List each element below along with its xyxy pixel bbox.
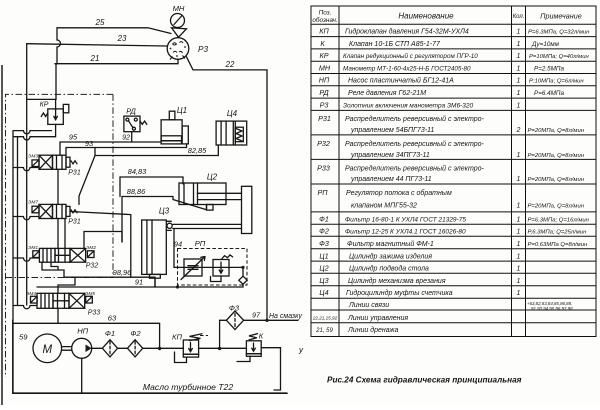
svg-text:КП: КП [172,332,182,341]
wire: Р31b side link down [70,212,131,278]
svg-text:Ц4: Ц4 [319,288,328,297]
wire: left vertical feed x26.7 [26,44,28,305]
wire: main line Ф2 to КП [143,347,184,350]
svg-text:МН: МН [173,4,185,13]
svg-text:Поз.: Поз. [319,10,332,17]
wire: riser to Ф3 [218,320,221,350]
svg-text:Реле давления Г62-21М: Реле давления Г62-21М [348,89,426,97]
wire: Р31a drain stub [13,168,39,171]
svg-text:Ц1: Ц1 [319,251,328,260]
svg-text:1: 1 [517,78,521,85]
svg-text:управлением 54БПГ73-11: управлением 54БПГ73-11 [350,127,434,134]
wire: left vertical feed x55 [55,28,61,100]
table column: names [343,28,485,335]
table column: notes [527,30,590,312]
wire 63 (pump pressure line) [13,314,160,349]
svg-text:1: 1 [517,203,521,210]
svg-text:Ц2: Ц2 [319,264,328,273]
wire: pump suction to tank [81,358,83,393]
svg-text:P=20МПа, Q=8л/мин: P=20МПа, Q=8л/мин [528,177,585,183]
svg-text:обознач.: обознач. [312,16,337,24]
wire 82,85 (to Ц4) [95,145,218,156]
wire: drain collector x13 [12,131,14,393]
distributor Р31 (second) with electromagnet ЭМ7 [28,200,81,226]
table header [312,10,581,24]
svg-text:На смазку: На смазку [269,313,302,320]
svg-text:Линии дренажа: Линии дренажа [347,326,398,334]
svg-text:Фильтр 12-25 К УХЛ4.1 ГОСТ 16: Фильтр 12-25 К УХЛ4.1 ГОСТ 16026-80 [345,229,466,236]
svg-text:Регулятор потока с обратным: Регулятор потока с обратным [346,189,452,197]
distributor Р33 with electromagnets ЭМ4 ЭМ5 [26,291,100,317]
electric motor М [33,334,62,363]
wire: Р33 bottom feed to 63 [57,308,59,323]
wire: Р32 drain stub [13,258,39,261]
svg-text:1: 1 [517,102,521,109]
wire: Р33 drain stub [13,306,37,309]
wire: Р33 top staircase [58,279,75,294]
svg-text:Гидроклапан давления Г54-32М-У: Гидроклапан давления Г54-32М-УХЛ4 [345,28,469,36]
svg-text:Клапан редукционный с регулято: Клапан редукционный с регулятором ПГР-10 [343,52,478,60]
svg-text:Р33: Р33 [317,164,330,173]
svg-text:1: 1 [517,278,521,285]
svg-text:93: 93 [85,139,94,148]
wire: link Р31a bottom to Р31b top [57,169,59,204]
svg-text:РД: РД [319,88,328,97]
svg-text:Ц4: Ц4 [227,109,238,118]
svg-text:1: 1 [517,253,521,260]
svg-text:Ду=10мм: Ду=10мм [531,41,560,48]
wire: second collector x17.5 [17,137,19,305]
wire: К outlet to tank [261,348,280,390]
svg-text:клапаном МПГ55-32: клапаном МПГ55-32 [351,203,417,210]
svg-text:P=10МПа; Q=40л/мин: P=10МПа; Q=40л/мин [529,54,589,60]
svg-text:Р31: Р31 [68,219,81,226]
svg-text:1: 1 [517,241,521,248]
wire: КП drain loop [175,352,187,363]
svg-text:Распределитель реверсивный с: Распределитель реверсивный с электро- [345,140,485,148]
page scan edge artifact [1,65,3,405]
svg-text:63: 63 [108,314,117,323]
cylinder Ц4 [216,109,247,145]
svg-text:P,6.3МПа; Q=25л/мин: P,6.3МПа; Q=25л/мин [528,230,588,236]
svg-text:1: 1 [517,41,521,48]
table frame [311,6,596,337]
table plate (shared rod end) [242,186,252,233]
cylinder Ц2 [179,173,242,211]
tank line [13,382,287,393]
table column: position designators [312,27,338,335]
valve КР (reducing valve) [40,102,69,125]
svg-text:Ф2: Ф2 [319,227,329,236]
svg-text:2: 2 [516,127,521,134]
wire 92 (РД to line) [122,132,132,142]
svg-text:Клапан 10-1Б СТП А85-1-77: Клапан 10-1Б СТП А85-1-77 [349,41,441,48]
svg-text:управлением 44 ПГ73-11: управлением 44 ПГ73-11 [350,176,432,183]
svg-text:Фильтр 16-80-1 К УХЛ4 ГОСТ 21: Фильтр 16-80-1 К УХЛ4 ГОСТ 21329-75 [345,217,466,224]
svg-text:ЭМ3: ЭМ3 [28,153,38,159]
svg-text:1: 1 [517,152,521,159]
svg-text:Линии управления: Линии управления [347,315,408,322]
svg-text:Цилиндр подвода стола: Цилиндр подвода стола [349,265,429,273]
svg-text:РД: РД [126,107,136,116]
svg-text:94: 94 [174,240,182,249]
svg-text:Насос пластинчатый БГ12-41А: Насос пластинчатый БГ12-41А [348,77,454,85]
wire 21 [55,54,178,64]
svg-text:22,21,15,92: 22,21,15,92 [312,315,338,320]
wire 97 (to lubrication) [244,311,303,322]
svg-text:Примечание: Примечание [540,12,581,21]
svg-text:1: 1 [517,65,521,72]
wire 23 [27,34,168,46]
filter Ф1 [102,329,117,357]
svg-text:Рис.24 Схема гидравлическая: Рис.24 Схема гидравлическая принципиальн… [327,376,522,385]
distributor Р31 (first) with electromagnet ЭМ3 [28,153,81,176]
svg-text:Ц2: Ц2 [207,173,218,182]
flow regulator РП (dashed box) [174,239,247,287]
svg-text:P=6.3МПа; Q=16л/мин: P=6.3МПа; Q=16л/мин [528,218,590,224]
svg-text:P=20МПа, Q=8л/мин: P=20МПа, Q=8л/мин [528,153,585,159]
svg-text:Р31: Р31 [318,114,331,123]
svg-text:Наименование: Наименование [398,12,454,21]
svg-text:МН: МН [319,63,331,72]
svg-text:Манометр МТ-1-60-4х25-Н-Б ГОС: Манометр МТ-1-60-4х25-Н-Б ГОСТ2405-80 [343,65,471,72]
svg-text:Линии связи: Линии связи [348,302,389,309]
svg-text:97: 97 [252,311,261,320]
table column: quantity [516,29,521,298]
valve Р3 (gauge isolator ЗМ6-320) [167,38,208,60]
svg-text:23: 23 [117,34,127,43]
wire: Р31b bottom to Р32 top feeds [57,219,59,249]
svg-text:КП: КП [319,27,329,36]
svg-text:М: М [43,344,53,356]
svg-text:22: 22 [225,60,235,69]
svg-text:Масло турбинное Т22: Масло турбинное Т22 [143,382,233,392]
relief valve КП [172,332,208,357]
svg-text:КР: КР [319,51,328,60]
svg-text:Ф1: Ф1 [105,329,115,338]
svg-text:P=0.63МПа Q=8л/мин: P=0.63МПа Q=8л/мин [528,242,588,248]
svg-text:Золотник включения манометра: Золотник включения манометра ЗМ6-320 [343,102,473,109]
svg-text:95: 95 [69,132,78,141]
svg-text:Р3: Р3 [198,45,208,54]
svg-text:1: 1 [517,53,521,60]
svg-text:НП: НП [77,327,88,336]
svg-text:1: 1 [517,176,521,183]
svg-text:21: 21 [90,54,100,63]
shaft М-НП [62,347,72,351]
wire 91 (to Ц3 piston side) [37,277,243,288]
filter Ф2 [128,329,143,357]
wire: pump outlet [92,347,103,349]
wire: К drain [237,356,250,361]
svg-text:ЭМ7: ЭМ7 [28,200,38,206]
svg-text:Ц3: Ц3 [159,207,170,216]
svg-text:Распределитель реверсивный с: Распределитель реверсивный с электро- [345,115,485,123]
svg-text:25: 25 [95,18,105,27]
svg-text:91: 91 [135,277,143,286]
svg-text:82,85: 82,85 [188,146,207,155]
svg-text:1: 1 [517,266,521,273]
svg-text:98,96: 98,96 [113,268,132,277]
svg-text:P=6.4МПа: P=6.4МПа [534,90,564,97]
svg-text:Цилиндр механизма врезания: Цилиндр механизма врезания [348,277,446,285]
wire: Р31b drain stub [13,217,39,220]
svg-text:Ф3: Ф3 [319,239,329,248]
svg-text:Р3: Р3 [320,100,329,109]
svg-text:К: К [259,332,264,341]
svg-text:P=6.3МПа, Q=32л/мин: P=6.3МПа, Q=32л/мин [528,30,590,36]
wire 94 (Ц3 rod side to РП) [174,229,182,268]
wire: x122 down to Р32 [84,232,122,249]
crossover bumps on x26.7 [24,131,31,140]
svg-text:Распределитель реверсивный с: Распределитель реверсивный с электро- [345,165,485,173]
wire 25 [57,18,171,34]
svg-text:1: 1 [517,290,521,297]
svg-text:59: 59 [19,333,28,342]
svg-text:ЭМ1: ЭМ1 [28,245,38,251]
wire: КР top header [27,98,56,100]
svg-text:Р31: Р31 [68,170,81,177]
wire 22 [187,57,268,321]
svg-text:Ц3: Ц3 [319,276,328,285]
filter Ф3 (magnetic) [220,304,244,330]
svg-text:Р32: Р32 [317,139,330,148]
svg-text:88,86: 88,86 [127,187,146,196]
svg-text:1: 1 [517,90,521,97]
svg-text:1: 1 [517,29,521,36]
svg-text:Гидроцилиндр муфты счетчика: Гидроцилиндр муфты счетчика [346,289,453,297]
svg-text:Цилиндр зажима изделия: Цилиндр зажима изделия [349,252,432,260]
svg-text:управлением 34ПГ73-11: управлением 34ПГ73-11 [350,152,430,159]
gauge connection triangle [172,28,187,37]
svg-text:Р32: Р32 [86,263,99,270]
cylinder Ц1 [161,106,188,144]
svg-text:P:10МПа; Q=6л/мин: P:10МПа; Q=6л/мин [529,79,584,85]
wire 59 (left drain to tank) [13,320,29,393]
wire 88,86 (to Ц2 bottom port) [122,187,207,242]
wire: КП to К [199,347,247,349]
svg-text:21, 59: 21, 59 [315,328,333,334]
svg-text:P=20МПа, Q=8л/мин: P=20МПа, Q=8л/мин [528,204,585,210]
wire 98,96 (Р32 to РП area staircase) [42,262,155,287]
svg-text:P=20МПа, Q=8л/мин: P=20МПа, Q=8л/мин [528,128,585,134]
cylinder Ц3 [142,207,242,279]
wire 95 (to Ц1) [60,132,161,155]
wire: header y136.7 [14,136,55,138]
svg-text:КР: КР [40,102,49,109]
svg-text:Кол.: Кол. [513,14,525,20]
svg-text:1: 1 [517,229,521,236]
svg-text:91,93,94,95,96,97,98: 91,93,94,95,96,97,98 [531,306,573,311]
enclosure boundary (dash-dot machine outline left) [6,94,114,377]
svg-text:Р33: Р33 [88,310,101,317]
svg-text:84,83: 84,83 [128,167,147,176]
svg-text:Ф2: Ф2 [130,329,141,338]
wire 93 [66,139,187,155]
manometer МН [171,4,185,28]
wire: КР drain to collector [14,130,52,132]
wire Ф1-Ф2 [118,347,128,349]
wire: КР inlet through valve [55,99,57,110]
svg-text:РП: РП [195,239,206,248]
svg-text:P=2.5МПа: P=2.5МПа [534,65,564,72]
wire: diagonal from 82,85 corner to Р31b [79,156,95,205]
pump НП [72,327,92,359]
svg-text:РП: РП [317,188,328,197]
svg-text:Ц1: Ц1 [177,106,187,115]
svg-text:Фильтр магнитный ФМ-1: Фильтр магнитный ФМ-1 [347,240,434,248]
wire: КР outlet down [54,124,57,136]
svg-text:Ф1: Ф1 [319,215,329,224]
pressure relay РД [124,107,147,132]
svg-text:НП: НП [319,76,330,85]
distributor Р32 with electromagnets ЭМ1 ЭМ2 [28,245,98,270]
svg-text:92: 92 [122,135,130,142]
wire 84,83 (to Ц2) [120,167,183,197]
svg-text:1: 1 [517,217,521,224]
svg-text:ЭМ2: ЭМ2 [86,245,96,251]
check valve К [246,332,263,357]
